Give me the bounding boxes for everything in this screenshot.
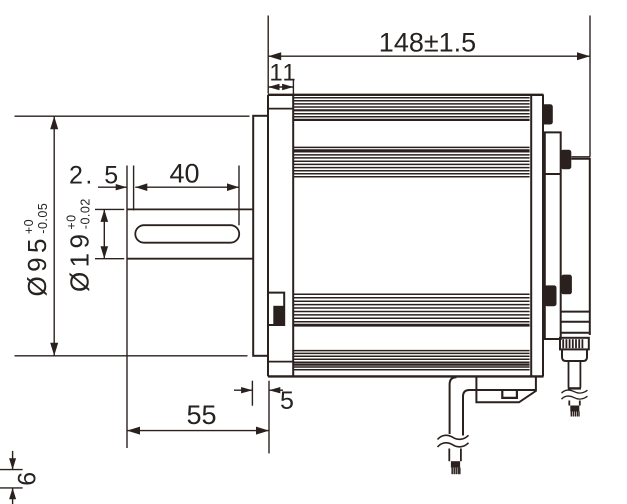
cable tube (right) <box>568 361 581 388</box>
svg-text:55: 55 <box>186 400 216 430</box>
cooling fin group 3 (bottom inner) <box>293 294 529 325</box>
cable gland lower collar <box>562 349 587 361</box>
cable end segment (right) <box>569 401 580 406</box>
dimension 55 line <box>127 430 269 432</box>
rear end plate <box>531 95 543 377</box>
svg-text:11: 11 <box>269 60 297 87</box>
cooling fin group 4 (bottom outer) <box>293 351 529 370</box>
svg-text:2. 5: 2. 5 <box>69 162 121 190</box>
cable break wavy lines (right) <box>562 390 588 399</box>
shaft end / 55 extension line <box>126 166 128 449</box>
svg-text:148±1.5: 148±1.5 <box>379 28 476 58</box>
cable strands (right) <box>571 412 579 417</box>
motor body outline <box>268 95 544 377</box>
knurl stripes <box>563 339 582 348</box>
dimension 148 arrows <box>268 52 281 60</box>
dimension 2.5 arrow stub <box>98 186 127 188</box>
screw S2 (upper right, on box) <box>561 150 572 169</box>
cable end segment (left) <box>449 449 461 462</box>
dimension 11 line <box>268 86 293 88</box>
cable break wavy lines (left) <box>438 435 469 447</box>
dimension 6 lines <box>0 469 23 471</box>
svg-text:5: 5 <box>280 387 294 415</box>
cable conduit elbow (left) <box>450 377 470 435</box>
terminal box cover <box>561 159 590 335</box>
diameter 95 dimension line <box>53 116 55 356</box>
collar key box black fill <box>273 306 284 326</box>
dimension 5 stubs <box>234 389 252 391</box>
junction box notch <box>502 390 517 398</box>
cooling fin group 2 (top inner) <box>293 147 529 176</box>
dimension 5 extension line <box>251 381 253 406</box>
diameter 19 dimension line <box>103 209 105 258</box>
keyway slot <box>135 225 239 243</box>
dimension 148±1.5 extension lines <box>268 16 590 157</box>
dimension 11 arrows <box>268 84 279 90</box>
collar inner lines <box>268 109 293 362</box>
cooling fin group 1 (top outer) <box>293 98 529 120</box>
dimension 55 extension line right <box>268 381 270 454</box>
collar key box outline <box>269 293 284 325</box>
dimension 148±1.5 line <box>268 55 590 57</box>
screw S3 (lower left) <box>545 285 557 306</box>
front flange plate <box>253 116 268 356</box>
cable end ferrule (left) <box>451 461 460 467</box>
shaft <box>127 209 253 258</box>
terminal box body <box>542 132 561 339</box>
cable gland knurled nut <box>560 338 589 350</box>
cable end ferrule (right) <box>570 406 579 412</box>
bottom junction box <box>470 377 536 402</box>
dimension 40 extension lines <box>133 166 135 211</box>
svg-text:6: 6 <box>14 472 42 486</box>
diameter 19 extension lines <box>95 208 124 210</box>
cable strands (left) <box>452 468 460 475</box>
screw S4 (lower right) <box>561 275 572 295</box>
svg-text:40: 40 <box>169 159 199 189</box>
dimension 40 line <box>135 186 239 188</box>
screw S1 (top, on end plate) <box>542 104 553 124</box>
diameter 95 extension lines <box>15 115 250 117</box>
